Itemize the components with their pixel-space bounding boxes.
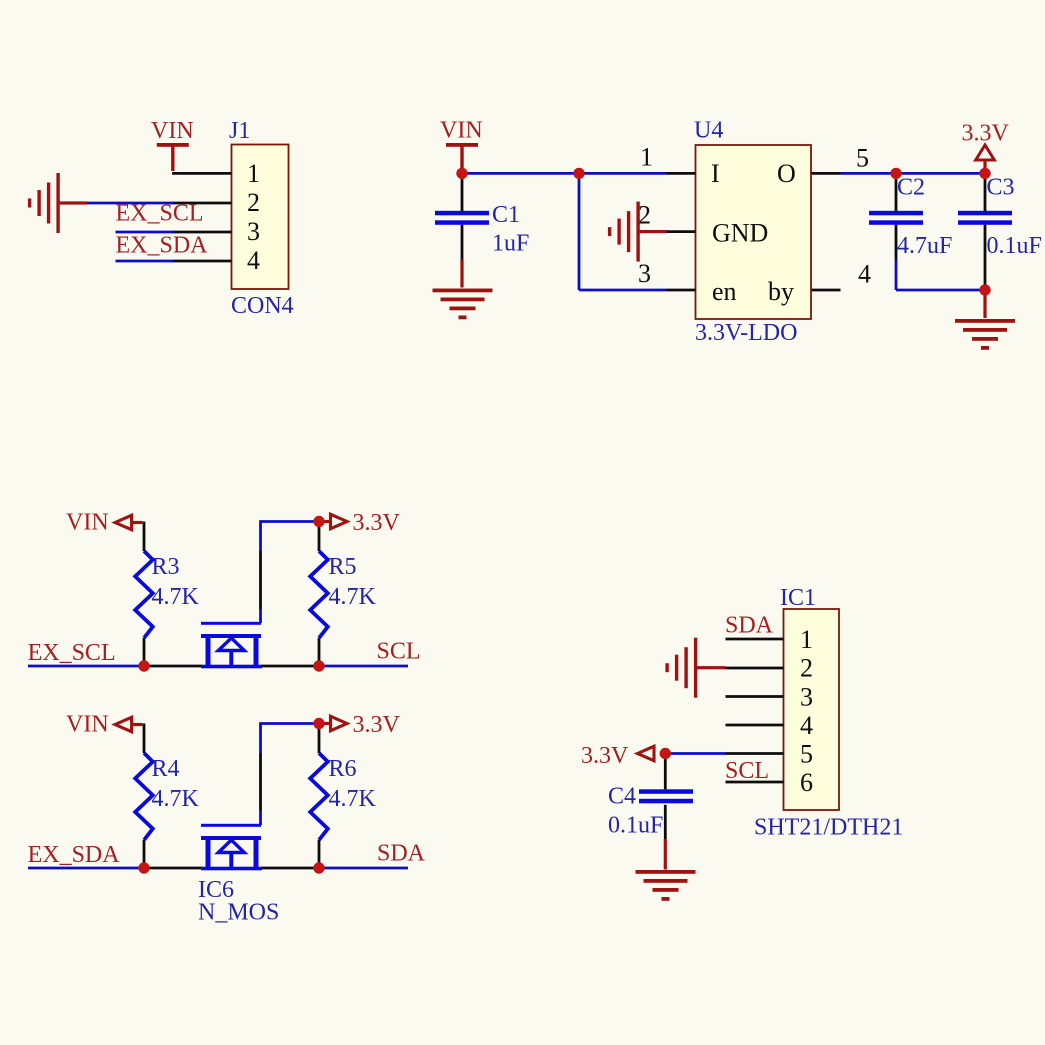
svg-text:4.7K: 4.7K <box>152 786 200 812</box>
svg-text:SCL: SCL <box>377 639 421 665</box>
svg-text:VIN: VIN <box>151 118 194 144</box>
svg-text:O: O <box>777 159 796 188</box>
svg-text:U4: U4 <box>694 118 723 144</box>
svg-text:4: 4 <box>247 246 260 275</box>
svg-text:3.3V: 3.3V <box>353 712 401 738</box>
svg-text:EX_SDA: EX_SDA <box>116 232 209 258</box>
svg-text:J1: J1 <box>229 118 250 144</box>
svg-text:3: 3 <box>638 259 651 288</box>
svg-text:1uF: 1uF <box>492 231 529 257</box>
svg-text:1: 1 <box>640 143 653 172</box>
svg-text:SHT21/DTH21: SHT21/DTH21 <box>754 815 903 841</box>
svg-text:3.3V: 3.3V <box>581 743 629 769</box>
svg-text:5: 5 <box>856 144 869 173</box>
svg-text:3: 3 <box>247 217 260 246</box>
svg-text:R3: R3 <box>152 554 180 580</box>
svg-text:2: 2 <box>638 201 651 230</box>
svg-text:GND: GND <box>712 219 768 248</box>
svg-text:3.3V: 3.3V <box>353 510 401 536</box>
svg-text:2: 2 <box>247 188 260 217</box>
svg-text:IC1: IC1 <box>780 585 816 611</box>
svg-text:C4: C4 <box>608 784 636 810</box>
svg-text:3: 3 <box>800 683 813 712</box>
svg-text:3.3V-LDO: 3.3V-LDO <box>695 320 797 346</box>
svg-text:SCL: SCL <box>725 758 769 784</box>
svg-text:N_MOS: N_MOS <box>198 900 279 926</box>
svg-text:1: 1 <box>800 625 813 654</box>
svg-text:EX_SDA: EX_SDA <box>28 842 121 868</box>
svg-text:CON4: CON4 <box>231 293 294 319</box>
svg-text:C1: C1 <box>492 202 520 228</box>
svg-text:4.7K: 4.7K <box>329 584 377 610</box>
svg-text:SDA: SDA <box>377 841 426 867</box>
svg-text:en: en <box>712 277 737 306</box>
svg-text:VIN: VIN <box>66 712 109 738</box>
svg-text:1: 1 <box>247 159 260 188</box>
svg-text:by: by <box>768 277 794 306</box>
svg-text:3.3V: 3.3V <box>962 121 1010 147</box>
svg-text:R5: R5 <box>329 554 357 580</box>
svg-text:C3: C3 <box>987 175 1015 201</box>
svg-text:4: 4 <box>858 260 871 289</box>
svg-text:EX_SCL: EX_SCL <box>116 200 204 226</box>
svg-text:VIN: VIN <box>66 510 109 536</box>
svg-text:0.1uF: 0.1uF <box>987 233 1042 259</box>
svg-text:4: 4 <box>800 711 813 740</box>
svg-text:2: 2 <box>800 654 813 683</box>
svg-text:I: I <box>711 159 720 188</box>
svg-text:0.1uF: 0.1uF <box>608 813 663 839</box>
svg-text:4.7K: 4.7K <box>329 786 377 812</box>
svg-text:6: 6 <box>800 768 813 797</box>
svg-text:SDA: SDA <box>725 613 774 639</box>
svg-text:R4: R4 <box>152 756 180 782</box>
svg-text:VIN: VIN <box>440 118 483 144</box>
svg-text:4.7uF: 4.7uF <box>897 233 952 259</box>
svg-text:4.7K: 4.7K <box>152 584 200 610</box>
svg-text:R6: R6 <box>329 756 357 782</box>
svg-text:C2: C2 <box>897 175 925 201</box>
svg-text:5: 5 <box>800 740 813 769</box>
svg-text:EX_SCL: EX_SCL <box>28 640 116 666</box>
